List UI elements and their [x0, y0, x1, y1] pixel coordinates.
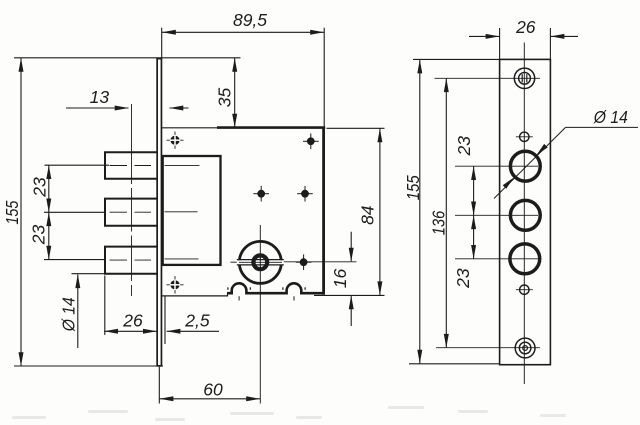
plate vertical centerline [523, 43, 525, 385]
dimension 23 upper left: dimension line and arrows [48, 165, 50, 259]
dimension 26 bottom-left: extension line [104, 276, 106, 336]
diameter 14 leader left: line and arrow [77, 275, 79, 349]
bolt 3 center dash [110, 259, 128, 261]
small hole lower crosshair [516, 289, 533, 291]
cylinder band centerline dash [239, 261, 282, 263]
small hole lower [520, 285, 529, 294]
top screw hole crosshair [435, 77, 541, 79]
big hole 1 [510, 151, 540, 181]
dimension 23 lower right: arrows [471, 215, 476, 229]
screw hole symbol top-left of case [167, 139, 184, 141]
dimension 89,5: right extension line [323, 28, 325, 127]
lock case right edge [322, 127, 325, 295]
svg-text:23: 23 [454, 136, 474, 157]
rivet dot top-right [303, 140, 319, 142]
cylinder follower band [237, 260, 284, 264]
bolt 2 center dash [110, 211, 128, 213]
dimension 89,5: left extension line [161, 28, 163, 59]
svg-text:23: 23 [30, 177, 50, 198]
cylinder horizontal centerline right / 16 extension line [284, 261, 357, 263]
inner mechanism box [163, 156, 221, 265]
big hole 3 center line [455, 258, 538, 260]
diameter 14 leader right: arrows at circle [536, 144, 548, 156]
svg-text:35: 35 [214, 88, 234, 108]
svg-text:155: 155 [2, 200, 22, 224]
svg-text:23: 23 [453, 268, 473, 289]
inner box line at bolt1 level [165, 165, 200, 167]
small hole upper [520, 132, 529, 141]
dimension 35: extension line top [162, 57, 241, 59]
screw hole symbol bottom-left of case [167, 284, 184, 286]
dimension 2,5: extension line [164, 297, 166, 345]
top screw hole circles [514, 68, 534, 88]
dimension 155 left: extension lines [14, 57, 162, 59]
dimension 2,5: arrow with tail [167, 330, 219, 332]
dimension 84: dimension line and arrows [379, 129, 381, 296]
bolt 1 (top deadbolt pin) [105, 152, 157, 179]
cylinder vertical centerline through band [259, 255, 261, 270]
lock case bottom edge thick with screw-post arches [227, 283, 325, 293]
big hole 2 center line [455, 214, 538, 216]
svg-text:84: 84 [358, 205, 378, 225]
svg-text:16: 16 [330, 269, 350, 289]
top screw hole slot marks [521, 74, 523, 82]
svg-text:26: 26 [122, 311, 143, 331]
dimension 13: right arrow with tail [170, 107, 189, 109]
svg-text:13: 13 [90, 87, 110, 107]
rivet dot lower-right [296, 261, 312, 263]
svg-text:60: 60 [203, 380, 223, 400]
dimension 23 lower left: arrows [46, 212, 51, 226]
dimension 84: top extension line [327, 127, 385, 129]
lock case top edge thin part [162, 127, 219, 129]
dimension 26 bottom-left: dimension line and arrows [104, 330, 157, 332]
cylinder horizontal centerline left stub [231, 261, 238, 263]
dimension 26 top right: dimension line, arrows outside [469, 35, 499, 37]
big hole 2 [510, 200, 540, 230]
striker plate outline [500, 59, 551, 364]
dimension 89,5: dimension line and arrows [162, 31, 324, 33]
big hole 3 [510, 244, 540, 274]
dimension 155 right: dimension line and arrows [419, 60, 421, 364]
svg-text:155: 155 [403, 175, 423, 200]
dimension 84: bottom extension line shared with 16 [314, 294, 385, 296]
dimension 26 top right: extension lines [499, 28, 501, 60]
bolt 2 (middle deadbolt pin) [105, 199, 157, 226]
lock cylinder outer circle [239, 241, 281, 283]
rivet dot middle-right [297, 193, 313, 195]
bolt 3 (bottom deadbolt pin) [105, 247, 157, 274]
lock case bottom edge thin part [162, 295, 228, 297]
svg-text:89,5: 89,5 [233, 10, 267, 30]
dimension 155 left: dimension line with arrows [20, 58, 22, 366]
faceplate left view [157, 59, 161, 366]
dimension 23 upper right: dimension line and arrows [473, 166, 475, 259]
lock case top edge thick part [217, 126, 325, 129]
svg-text:26: 26 [515, 17, 536, 37]
screw post centerline dashes [238, 296, 240, 300]
cylinder vertical centerline [259, 225, 261, 404]
lock case bottom step [227, 293, 229, 296]
svg-text:23: 23 [29, 225, 49, 246]
diameter 14 leader right: diagonal line [494, 127, 566, 198]
screw post side tick marks [227, 287, 229, 290]
dimension 13: left line and arrow [66, 107, 129, 109]
svg-text:136: 136 [429, 211, 449, 236]
big hole 1 center line [455, 165, 538, 167]
inner box line at bolt2 level [165, 211, 198, 213]
bolt centerline vertical [131, 104, 133, 184]
small hole upper crosshair [516, 136, 533, 138]
bolt 3 bottom edge extension for diameter leader [72, 273, 106, 275]
inner box line at bolt3 level [165, 258, 199, 260]
svg-text:Ø 14: Ø 14 [58, 297, 78, 332]
dimension 155 right: extension lines [413, 58, 499, 60]
cylinder inner ring [253, 255, 267, 269]
diameter 14 leader right: underline [566, 126, 639, 128]
faint scan smudges at bottom [12, 406, 566, 421]
dimension 60: dimension line and arrows [160, 398, 260, 400]
svg-text:2,5: 2,5 [184, 311, 210, 331]
svg-text:Ø 14: Ø 14 [593, 107, 628, 127]
bolt 1 center dash [110, 165, 128, 167]
rivet dot middle-left [253, 193, 269, 195]
dimension 136 right: dimension line and arrows [445, 78, 447, 347]
dimension 35: dimension line and arrows [234, 58, 236, 128]
bottom screw hole circles [515, 338, 535, 358]
dimension 23 upper left: extension lines [45, 164, 110, 166]
dimension 60: left extension line [158, 367, 160, 404]
dimension 16: dimension line and arrows outside [350, 232, 352, 262]
bottom screw hole crosshair [436, 347, 540, 349]
